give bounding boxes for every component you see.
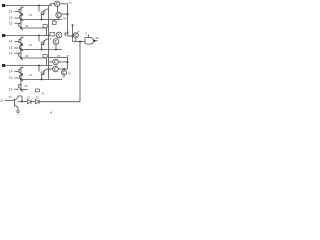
wire block2 lineB right [49, 57, 68, 59]
wire drop to bus3 [46, 58, 48, 66]
svg-text:24: 24 [29, 43, 32, 47]
svg-text:15: 15 [9, 16, 13, 20]
svg-text:15: 15 [9, 46, 13, 50]
transistor Q33b [19, 84, 23, 92]
input terminal T3 [2, 64, 5, 67]
wire Q6 emitter [17, 108, 19, 112]
wire x80 vertical [79, 42, 81, 102]
transistor Q12 [20, 15, 24, 21]
terminal dot x72.5 top [72, 24, 74, 26]
svg-text:24: 24 [29, 13, 32, 17]
junction Q45 out [67, 61, 69, 63]
wire Q42 out [61, 13, 67, 15]
svg-text:27: 27 [67, 54, 70, 58]
wire corner to opamp [73, 41, 86, 43]
wire bus1 [5, 5, 52, 7]
wire dash R31 [15, 71, 19, 73]
transistor circle Q42 [56, 12, 61, 17]
wire Q45 out [58, 61, 67, 63]
transistor Q43 inner [58, 33, 60, 36]
svg-text:32: 32 [27, 96, 31, 100]
junction x80 [79, 41, 81, 43]
wire into opamp top [88, 35, 90, 38]
wire vertical x21 [20, 7, 22, 29]
junction block1 lineA [20, 19, 22, 21]
wire block2 lineB [21, 57, 47, 59]
transistor circle Q44 [53, 39, 59, 45]
svg-text:2: 2 [50, 37, 52, 41]
transistor Q47 inner [63, 71, 65, 74]
wire x67.5 mid vertical [67, 58, 69, 70]
wire D2-D3 [31, 101, 35, 103]
junction block2 lineA [20, 49, 22, 51]
wire block3 lineB [21, 89, 28, 91]
junction Q13 emitter [41, 19, 43, 21]
svg-text:16: 16 [9, 87, 13, 91]
wire dash R21 [15, 41, 19, 43]
small box B1 [53, 21, 57, 24]
svg-text:15: 15 [9, 76, 13, 80]
transistor Q31 [19, 67, 23, 74]
wire bus17 top [67, 4, 69, 34]
wire dash R32 [15, 77, 19, 79]
transistor Q5 inner [75, 34, 77, 37]
wire Q47 tail [63, 75, 65, 78]
svg-text:2: 2 [85, 31, 87, 35]
transistor Q33 [42, 69, 49, 80]
transistor Q6 [15, 96, 19, 108]
svg-text:76: 76 [68, 72, 72, 76]
diode D3 [36, 100, 40, 104]
transistor Q42 inner [58, 13, 60, 16]
transistor Q41 inner [56, 2, 58, 5]
transistor circle Q47 [61, 70, 66, 75]
wire vertical x21 [20, 67, 22, 89]
wire block3 lineA [21, 79, 62, 81]
svg-text:20: 20 [63, 17, 67, 21]
wire block1 lineB [21, 27, 47, 29]
transistor Q13 [42, 9, 49, 20]
svg-text:25: 25 [57, 54, 61, 58]
wire output [95, 40, 97, 42]
wire dash R23 [15, 52, 19, 54]
svg-text:14: 14 [9, 10, 13, 14]
transistor Q13b [19, 22, 23, 30]
junction bus1 x39 [38, 5, 40, 7]
svg-text:17: 17 [69, 1, 73, 5]
wire dash R11 [15, 11, 19, 13]
junction D1-bus [72, 35, 74, 37]
wire dash R22 [15, 47, 19, 49]
wire D1 to bus [68, 35, 73, 37]
wire Q45 stub left [49, 61, 53, 63]
svg-text:33: 33 [36, 96, 40, 100]
svg-text:a: a [50, 110, 53, 115]
transistor circle Q5 [73, 33, 78, 38]
base box Q33 [41, 72, 44, 75]
transistor circle Q41 [54, 1, 59, 6]
diode D2 [28, 100, 32, 104]
wire Q46 stub left [49, 68, 53, 70]
wire Q41 out [60, 3, 68, 5]
wire Q5 down [75, 38, 77, 42]
wire bias out [18, 101, 28, 103]
small box B2 [50, 33, 55, 36]
junction bus2 x39 [38, 35, 40, 37]
wire x72.5 [72, 25, 74, 42]
capacitor C1 [43, 25, 47, 28]
junction block1 lineB [20, 27, 22, 29]
wire drop to bus2 [46, 28, 48, 36]
transistor Q21 [19, 37, 23, 44]
junction Q44 emitter [55, 49, 57, 51]
junction blob J3a [21, 73, 23, 75]
wire bus3 [5, 65, 52, 67]
wire Q44 down [55, 44, 57, 49]
junction block3 lineA [20, 79, 22, 81]
junction Q23 emitter [41, 49, 43, 51]
base box Q23 [41, 42, 44, 45]
wire block1 lineA [21, 19, 62, 21]
junction block3 lineB [20, 89, 22, 91]
capacitor C2 [43, 55, 47, 58]
svg-text:16: 16 [9, 21, 13, 25]
transistor Q11 [19, 7, 23, 14]
base box Q13 [41, 12, 44, 15]
junction Q47 top [63, 68, 65, 70]
wire dash R33 [15, 88, 19, 90]
wire long vertical x48.5 [48, 6, 50, 80]
junction block2 lineB [20, 57, 22, 59]
transistor Q45 inner [55, 60, 57, 63]
junction blob J2a [21, 43, 23, 45]
wire bottom to x80 [39, 101, 80, 103]
wire base lead Q33 [38, 66, 40, 72]
junction output [94, 40, 96, 42]
transistor Q46 inner [55, 67, 57, 70]
svg-text:26: 26 [25, 84, 29, 88]
wire base lead Q13 [38, 6, 40, 12]
ground GND [16, 111, 20, 114]
junction blob J1a [21, 13, 23, 15]
transistor Q22 [20, 45, 24, 51]
transistor Q23 [42, 39, 49, 50]
transistor Q23b [19, 52, 23, 60]
label 17b tick [78, 31, 80, 33]
junction Q33 emitter [41, 79, 43, 81]
wire base lead Q23 [38, 36, 40, 42]
transistor circle Q46 [53, 66, 59, 72]
transistor Q44 inner [55, 40, 57, 43]
wire Q41 left stub [50, 4, 54, 6]
junction bus3 x39 [38, 65, 40, 67]
wire block2 lineA [21, 49, 62, 51]
junction at bus17 [67, 13, 69, 15]
wire bias input [5, 99, 15, 101]
input terminal T1 [2, 4, 5, 7]
transistor circle Q45 [53, 59, 59, 65]
svg-text:31: 31 [9, 95, 13, 99]
wire Q42 down [58, 18, 60, 20]
op-amp U1 [85, 38, 94, 45]
svg-text:30: 30 [96, 36, 100, 40]
transistor circle Q43 [56, 32, 62, 38]
junction bias [21, 101, 23, 103]
svg-text:26: 26 [25, 24, 29, 28]
wire Q6 collector top [18, 96, 22, 102]
wire Q41 to Q42 [57, 6, 59, 12]
diode D1 [65, 32, 68, 36]
wire vertical x21 [20, 37, 22, 59]
svg-text:30: 30 [0, 99, 4, 103]
svg-text:16: 16 [9, 51, 13, 55]
svg-text:24: 24 [29, 73, 32, 77]
wire bus2 [5, 35, 50, 37]
transistor Q32 [20, 75, 24, 81]
svg-text:14: 14 [9, 40, 13, 44]
component mark M3 [36, 89, 40, 92]
wire Q46 out [58, 68, 67, 70]
svg-text:26: 26 [25, 54, 29, 58]
svg-text:14: 14 [9, 70, 13, 74]
label tick M3 [42, 93, 44, 95]
wire dash R12 [15, 17, 19, 19]
input terminal T2 [2, 34, 5, 37]
wire dash R13 [15, 22, 19, 24]
wire B1 stub [53, 20, 55, 22]
